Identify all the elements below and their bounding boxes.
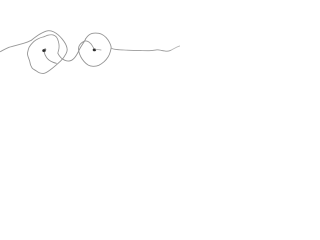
wire: connecting swoosh between loops xyxy=(58,39,86,61)
coil loop L2 inner curl to node D2 xyxy=(84,41,94,49)
node dot D2 (center of loop L2) xyxy=(93,49,96,52)
wire: tail from node D1 to junction xyxy=(44,52,56,64)
wire: left lead line xyxy=(0,40,31,52)
wire: small hook at node D1 xyxy=(44,49,46,50)
coil loop L1 outer turn xyxy=(27,31,67,74)
wire: long right tail line xyxy=(111,48,171,51)
wire: fading rise at tail end xyxy=(171,46,180,50)
node dot D1 (center of loop L1) xyxy=(42,49,45,52)
wire: fading dash from node D2 xyxy=(96,49,101,51)
coil loop L2 outer turn xyxy=(79,33,112,66)
coil loop L1 inner turn xyxy=(33,35,59,54)
